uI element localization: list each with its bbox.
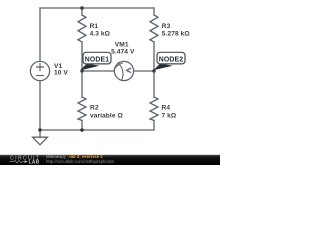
svg-text:10 V: 10 V — [54, 69, 68, 76]
footer CircuitLab logo squiggle — [10, 160, 25, 162]
svg-text:5.278 kΩ: 5.278 kΩ — [162, 31, 191, 38]
svg-text:R1: R1 — [90, 23, 99, 30]
wire voltmeter left — [82, 70, 114, 72]
svg-text:LAB: LAB — [29, 160, 40, 166]
ground — [39, 130, 41, 137]
wire left branch upper — [39, 8, 41, 61]
svg-text:R2: R2 — [90, 105, 99, 112]
resistor R3 — [150, 15, 158, 42]
svg-text:R3: R3 — [162, 23, 171, 30]
node NODE2 label box — [157, 52, 185, 64]
svg-text:variable Ω: variable Ω — [90, 112, 123, 119]
node junction dot left-bottom — [38, 128, 42, 132]
svg-text:NODE1: NODE1 — [85, 56, 110, 63]
svg-text:4.3 kΩ: 4.3 kΩ — [90, 30, 111, 37]
node NODE1 label box — [83, 52, 111, 64]
node NODE1 flag pointer — [80, 64, 99, 71]
node NODE2 junction dot — [152, 69, 155, 72]
resistor R1 — [78, 15, 86, 42]
svg-text:R4: R4 — [162, 105, 171, 112]
wire R2 bottom stub — [81, 120, 83, 130]
wire top rail — [40, 7, 154, 9]
wire R1 top stub — [81, 8, 83, 15]
wire left branch lower — [39, 81, 41, 130]
node NODE1 junction dot — [80, 69, 83, 72]
svg-text:7 kΩ: 7 kΩ — [162, 112, 177, 119]
wire voltmeter right — [134, 70, 154, 72]
node A junction dot top — [80, 6, 84, 10]
wire R3-R4 mid — [153, 42, 155, 97]
svg-text:NODE2: NODE2 — [159, 56, 184, 63]
voltmeter VM1 — [114, 61, 133, 80]
resistor R4 — [150, 97, 158, 120]
wire R3 top stub — [153, 8, 155, 15]
footer bar — [0, 155, 220, 165]
wire R1-R2 mid — [81, 42, 83, 97]
svg-text:http://circuitlab.com/c55hp24p: http://circuitlab.com/c55hp24pkcsbn — [46, 159, 115, 164]
wire R4 bottom stub — [153, 120, 155, 130]
footer CircuitLab logo arrow — [25, 160, 28, 163]
svg-text:5.474 V: 5.474 V — [111, 48, 135, 55]
node NODE2 flag pointer — [154, 64, 173, 71]
resistor R2 — [78, 97, 86, 120]
node junction dot mid-bottom — [80, 128, 84, 132]
voltage source V1 — [30, 61, 49, 80]
wire bottom rail — [40, 129, 154, 131]
